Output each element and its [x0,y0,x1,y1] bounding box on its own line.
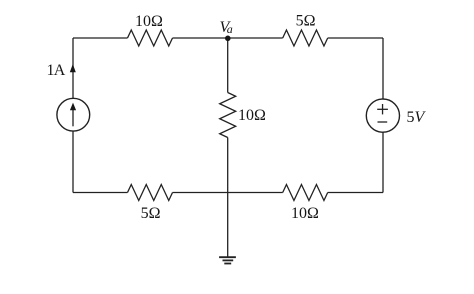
svg-text:5Ω: 5Ω [296,13,316,30]
svg-text:Va: Va [220,19,233,36]
svg-text:5V: 5V [407,109,427,126]
svg-text:10Ω: 10Ω [291,205,319,222]
svg-text:10Ω: 10Ω [238,107,266,124]
svg-text:5Ω: 5Ω [141,205,161,222]
svg-text:A: A [54,62,66,79]
svg-text:10Ω: 10Ω [135,13,163,30]
